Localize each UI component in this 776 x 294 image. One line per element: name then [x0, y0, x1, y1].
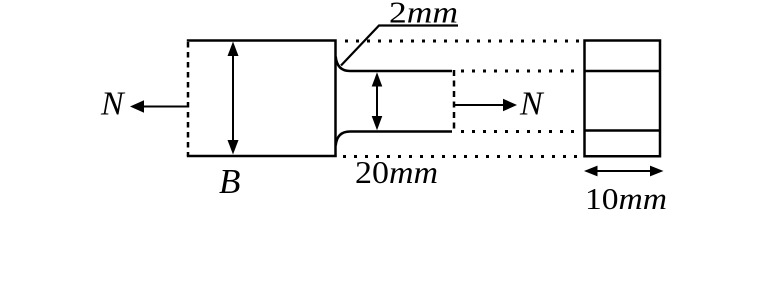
svg-text:2mm: 2mm — [389, 0, 458, 30]
svg-text:N: N — [100, 85, 126, 122]
svg-text:B: B — [219, 162, 240, 201]
svg-text:20mm: 20mm — [355, 155, 438, 190]
svg-text:N: N — [519, 85, 545, 122]
svg-text:10mm: 10mm — [585, 181, 667, 216]
